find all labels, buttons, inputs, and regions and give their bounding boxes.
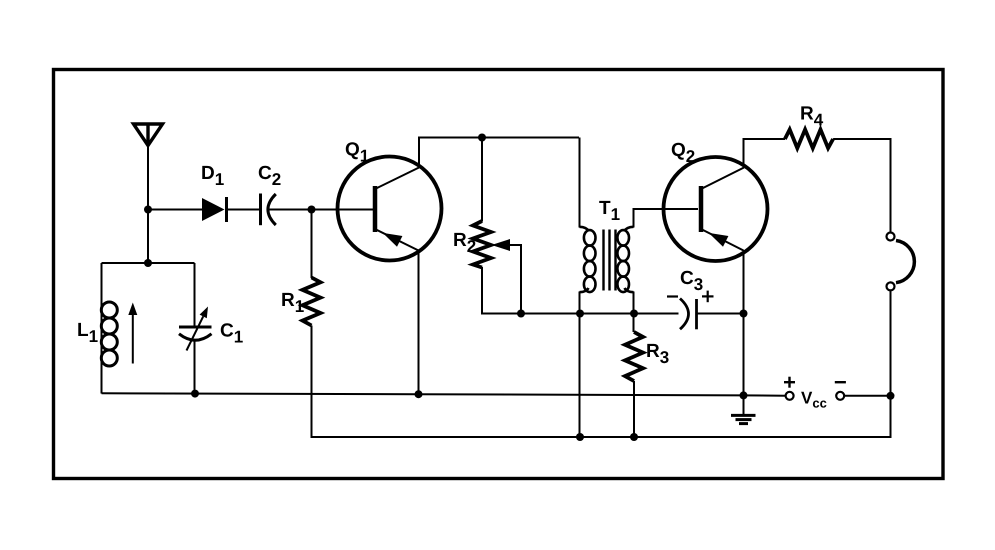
wire tank right top	[194, 263, 196, 327]
svg-text:D1: D1	[201, 163, 224, 189]
transistor Q1	[338, 157, 442, 261]
wire R4 to earphone	[833, 139, 890, 233]
variable capacitor C1	[179, 327, 212, 340]
svg-text:T1: T1	[599, 198, 620, 224]
ground	[731, 395, 756, 423]
wire R2 top	[481, 138, 483, 222]
svg-text:R2: R2	[453, 230, 476, 256]
wire Q2 emitter down	[743, 250, 745, 395]
resistor R4	[785, 130, 833, 149]
wire D1 to C2	[227, 209, 260, 211]
wire T1 secondary bottom down	[633, 292, 635, 333]
terminal Vcc minus	[836, 392, 844, 400]
wire to D1	[148, 209, 203, 211]
resistor R3	[625, 332, 643, 381]
svg-text:C1: C1	[220, 321, 243, 347]
svg-text:Vcc: Vcc	[801, 389, 827, 411]
svg-text:C3: C3	[680, 268, 703, 294]
tank circuit top wire	[102, 262, 195, 264]
terminal Vcc plus	[786, 392, 794, 400]
node C1 bottom	[191, 390, 199, 398]
diode D1	[202, 197, 227, 222]
node tank top	[144, 259, 152, 267]
svg-text:Q1: Q1	[345, 140, 369, 166]
node R3 bus2	[630, 433, 638, 441]
plus sign Vcc	[784, 377, 795, 388]
resistor R1 branch wire	[311, 210, 313, 279]
wire Vcc minus to right junction	[844, 395, 890, 397]
earphone terminal bottom	[887, 282, 895, 290]
capacitor C2	[261, 194, 276, 226]
wire C3 to Q2 emitter line	[698, 313, 744, 315]
node right bus junction	[887, 392, 895, 400]
wire T1 primary bottom down	[579, 292, 581, 438]
transformer T1 primary	[580, 227, 596, 292]
svg-text:C2: C2	[258, 163, 281, 189]
wire C2 to Q1 base	[268, 209, 375, 211]
wire tank right bottom	[194, 341, 196, 394]
node antenna junction	[144, 206, 152, 214]
wire top rail down to T1 primary	[579, 138, 581, 228]
wire Q1 emitter down	[418, 250, 420, 394]
wire Q2 collector to R4	[744, 139, 786, 168]
arrow through C1	[187, 307, 209, 351]
wire Q2 base to T1 secondary	[634, 209, 699, 228]
main supply bus	[102, 393, 786, 395]
wire R3 bottom	[633, 381, 635, 437]
node Q1 emitter bus	[415, 390, 423, 398]
earphone terminal top	[887, 233, 895, 241]
earphone element	[896, 241, 914, 283]
transformer T1 secondary	[617, 227, 633, 292]
node T1 secondary bottom	[630, 310, 638, 318]
wire R2 bottom	[482, 267, 679, 314]
arrow inside tank	[128, 303, 137, 364]
svg-text:R4: R4	[800, 104, 824, 130]
node T1 primary bottom	[576, 310, 584, 318]
svg-text:R1: R1	[281, 290, 304, 316]
wire antenna lead	[147, 145, 149, 263]
wire Q1 collector to top rail	[419, 138, 579, 168]
svg-text:Q2: Q2	[671, 140, 695, 166]
node top rail R2	[478, 134, 486, 142]
wiper arrow of R2	[492, 239, 522, 314]
node primary return bus2	[576, 433, 584, 441]
node wiper junction	[517, 310, 525, 318]
inductor L1	[101, 263, 117, 394]
capacitor C3	[680, 299, 697, 330]
transformer T1 core	[604, 230, 616, 291]
node C3 right	[740, 310, 748, 318]
resistor R1	[303, 278, 321, 326]
node ground junction	[740, 391, 748, 399]
svg-text:L1: L1	[77, 320, 98, 346]
transistor Q2	[664, 157, 768, 261]
wire earphone down	[890, 291, 892, 396]
minus sign C3	[667, 295, 678, 297]
wire R1 to bottom bus	[312, 326, 891, 438]
plus sign C3	[702, 291, 714, 303]
node base junction	[308, 206, 316, 214]
minus sign Vcc	[835, 381, 846, 383]
potentiometer R2	[473, 221, 491, 268]
svg-text:R3: R3	[646, 341, 669, 367]
antenna	[134, 124, 163, 146]
